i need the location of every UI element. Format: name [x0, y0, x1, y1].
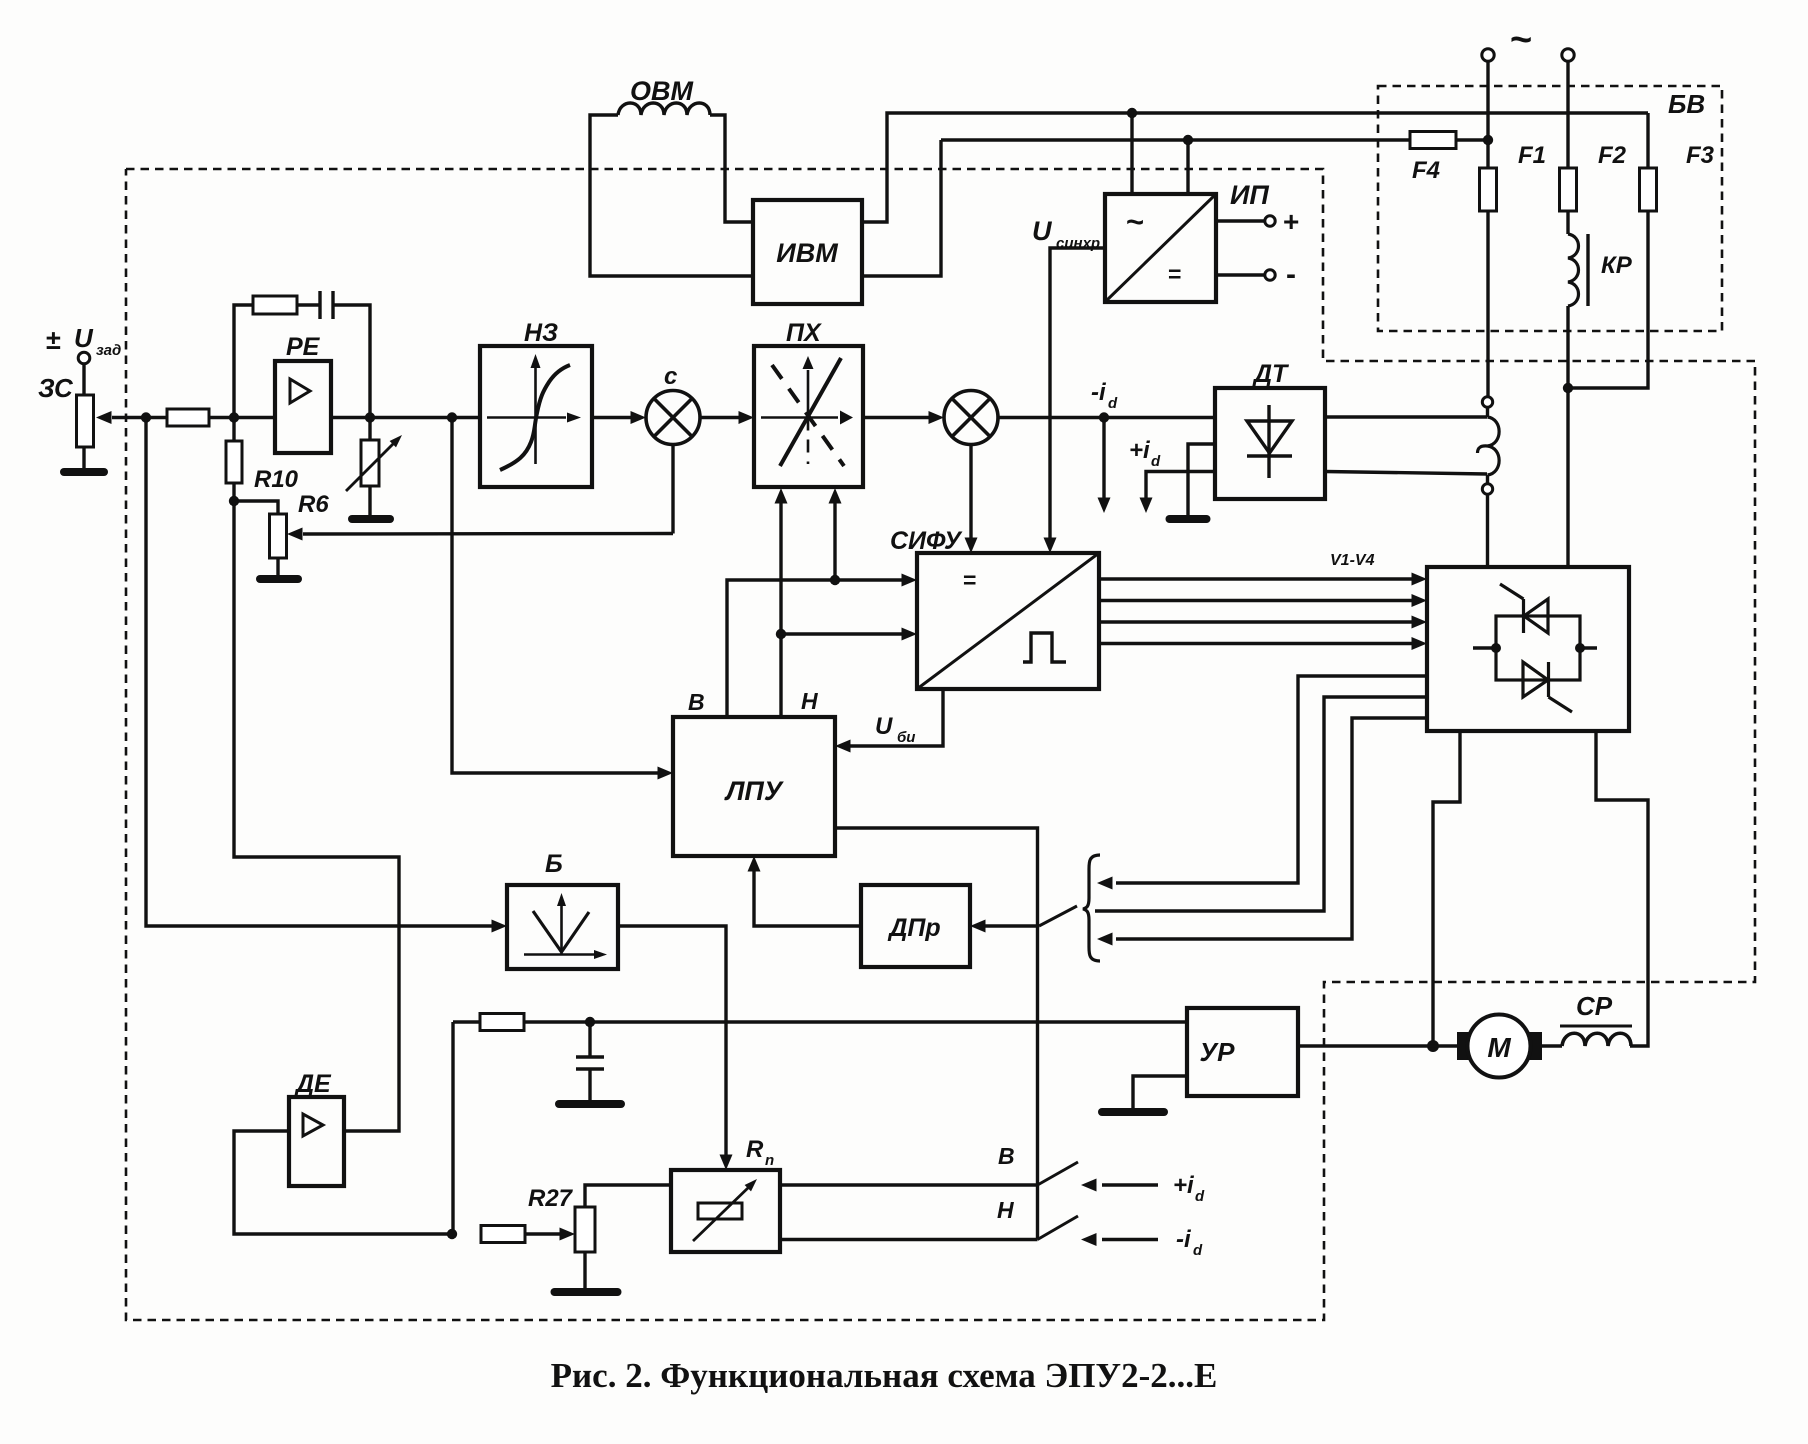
ground under ZS [64, 447, 104, 472]
label NZ [524, 319, 558, 347]
dashed box BV (input unit) [1378, 86, 1722, 331]
wire DT ground lead [1188, 444, 1215, 516]
svg-text:±: ± [46, 325, 61, 355]
wire SIFU output 3 [1099, 620, 1413, 623]
svg-text:~: ~ [1510, 19, 1532, 61]
wire PE output down to R6 [368, 418, 371, 441]
label IP [1230, 180, 1269, 210]
svg-text:ИП: ИП [1230, 180, 1269, 210]
wire U sinhr from IP to SIFU [1050, 248, 1105, 540]
triangle inside PE [290, 379, 310, 403]
wire node to trim potentiometer [234, 501, 278, 514]
wire Rn output H [780, 1238, 1038, 1241]
svg-text:би: би [897, 729, 915, 746]
wire +id into switch B [1102, 1183, 1158, 1186]
svg-text:ДТ: ДТ [1252, 360, 1290, 388]
label PX [786, 319, 822, 347]
svg-text:В: В [998, 1143, 1015, 1169]
svg-text:=: = [1168, 261, 1181, 287]
wire IP input 1 [1130, 113, 1133, 194]
junction main line / speed feedback [141, 412, 151, 422]
block Rn (adaptive resistor) [671, 1170, 780, 1252]
label U bi [875, 713, 915, 746]
arrow into thyristor block 2 [1412, 594, 1428, 607]
trim potentiometer under R10 [270, 514, 287, 558]
wire multiplier 2 to DT [998, 416, 1215, 419]
wire NZ to multiplier C [592, 416, 632, 419]
svg-text:В: В [688, 689, 705, 715]
block UR (reversing control) [1187, 1008, 1298, 1096]
svg-text:-i: -i [1176, 1226, 1192, 1253]
svg-text:Рис. 2. Функциональная схема Э: Рис. 2. Функциональная схема ЭПУ2-2...Е [551, 1356, 1218, 1395]
ground of UR [1102, 1108, 1164, 1116]
PX solid diagonal [780, 358, 841, 466]
label B above LPU [688, 689, 705, 715]
arrow into thyristor block 4 [1412, 637, 1428, 650]
label + at IP output [1283, 206, 1299, 237]
X cross in multiplier 2 [952, 399, 990, 437]
PX horizontal axis [761, 411, 853, 425]
label B at switch [998, 1143, 1015, 1169]
wire R10 to lower node [232, 483, 235, 501]
label DE [294, 1070, 332, 1098]
label - at IP output [1286, 258, 1296, 291]
arrow +id into switch B [1081, 1179, 1097, 1192]
svg-text:d: d [1108, 395, 1118, 412]
svg-text:U: U [875, 713, 893, 740]
wire PE output [331, 416, 480, 419]
svg-text:R: R [746, 1136, 764, 1163]
label F2 [1598, 142, 1627, 169]
arrow into B block [492, 920, 508, 933]
arrow into thyristor block 3 [1412, 616, 1428, 629]
wire F1 into converter [1486, 565, 1489, 568]
junction phase line 2 / IP [1183, 135, 1193, 145]
svg-text:U: U [1032, 216, 1053, 246]
inductor OVM [618, 103, 710, 115]
label +id [1129, 437, 1161, 470]
B V-curve [533, 911, 589, 952]
wire multiplier C to PX [700, 416, 740, 419]
svg-text:c: c [664, 363, 677, 390]
junction PE output / R6 [365, 412, 375, 422]
arrow through Rn (variable) [693, 1179, 757, 1241]
label SIFU [890, 527, 963, 555]
label UR [1200, 1037, 1236, 1067]
svg-text:R6: R6 [298, 491, 329, 518]
wire SIFU input B [727, 580, 903, 717]
label IVM [776, 238, 838, 268]
stub and junction right of loop [1575, 643, 1597, 653]
wire +id lead [1146, 472, 1215, 499]
arrow U sinhr into SIFU [1044, 538, 1057, 554]
feedback resistor of PE [253, 296, 297, 314]
svg-text:~: ~ [1126, 204, 1144, 239]
arrow into thyristor block 1 [1412, 573, 1428, 586]
block DPr (conduction sensor) [861, 885, 970, 967]
wire synchronization line to F4 [941, 138, 1410, 141]
arrow multiplier 2 into SIFU [965, 538, 978, 554]
label U sinhr [1032, 216, 1100, 252]
svg-text:ЗС: ЗС [38, 373, 74, 403]
wire F1 line to thyristor block [1486, 494, 1489, 567]
wire UR to motor [1298, 1044, 1459, 1047]
label M [1487, 1032, 1511, 1063]
block LPU (logic switching unit) [673, 717, 835, 856]
svg-text:ЛПУ: ЛПУ [724, 776, 784, 806]
variable resistor R6 [361, 440, 379, 486]
fuse F4 [1410, 132, 1456, 149]
AC supply terminal 1 [1482, 49, 1494, 61]
wire IVM to phase line 1 [862, 113, 1648, 222]
smoothing reactor SR [1562, 1033, 1631, 1046]
label DPr [887, 914, 940, 942]
wire IP plus output [1216, 219, 1264, 222]
label plus-minus U zad [46, 323, 121, 359]
arrow Ubi into LPU [835, 740, 851, 753]
arrow into PX [739, 411, 755, 424]
svg-text:Н: Н [997, 1197, 1014, 1223]
arrow into multiplier C [631, 411, 647, 424]
wire DT to transformer top [1325, 415, 1487, 418]
label LPU [724, 776, 784, 806]
block IP (power supply) [1105, 194, 1216, 302]
junction capacitor node [585, 1017, 595, 1027]
X cross in multiplier C [654, 399, 692, 437]
label F3 [1686, 142, 1715, 169]
wire -id into switch H [1102, 1238, 1158, 1241]
wire KR down to junction [1566, 306, 1569, 567]
resistor on R27 line [481, 1226, 525, 1243]
svg-text:+i: +i [1129, 437, 1151, 464]
wire resistor to PE [209, 416, 275, 419]
PX vertical axis [803, 356, 814, 464]
svg-text:зад: зад [96, 342, 121, 359]
wire SIFU Ubi output [849, 689, 943, 746]
wire main line from ZS wiper [112, 416, 167, 419]
wire winding to bottom tap [1486, 475, 1489, 484]
wire motor to smoothing reactor [1542, 1044, 1562, 1047]
wire current feedback to trim pot [303, 532, 673, 536]
block NZ (nonlinear element) [480, 346, 592, 487]
junction B line to PX [830, 575, 840, 585]
arrow +id direction [1140, 498, 1153, 514]
label PE [286, 333, 321, 361]
wire feedback up from PE input [234, 305, 253, 418]
block DT (current sensor) [1215, 388, 1325, 499]
wire F3 down [1568, 211, 1648, 388]
label KR [1601, 252, 1633, 279]
wire resistor to R27 [525, 1232, 561, 1235]
arrow -id into switch H [1081, 1233, 1097, 1246]
wire multiplier 2 down to SIFU [969, 445, 972, 541]
label -id at switch [1176, 1226, 1203, 1259]
svg-text:СИФУ: СИФУ [890, 527, 963, 555]
svg-text:+i: +i [1173, 1172, 1195, 1199]
wire SIFU input H / PX left [779, 502, 782, 717]
label R10 [254, 466, 299, 493]
current transformer top tap [1482, 397, 1492, 407]
svg-text:СР: СР [1576, 991, 1613, 1021]
arrow through R6 (variable) [346, 435, 402, 491]
terminal IP plus [1265, 216, 1275, 226]
svg-text:F2: F2 [1598, 142, 1627, 169]
junction motor armature node [1427, 1040, 1439, 1052]
inner loop of antiparallel thyristors [1496, 616, 1580, 680]
resistor on tacho line [480, 1014, 524, 1031]
figure caption [551, 1356, 1218, 1395]
arrow into LPU left [658, 767, 674, 780]
arrow into DPr [970, 920, 986, 933]
svg-text:РЕ: РЕ [286, 333, 321, 361]
wire thyristor feedback 2 [1095, 697, 1427, 911]
wire tap to winding [1486, 407, 1489, 417]
stub and junction left of loop [1473, 643, 1501, 653]
label H above LPU [801, 688, 818, 714]
feedback capacitor of PE [320, 291, 333, 319]
wire terminal to potentiometer ZS [82, 364, 85, 395]
svg-text:М: М [1487, 1032, 1511, 1063]
svg-text:F4: F4 [1412, 157, 1440, 184]
arrow into LPU bottom [748, 856, 761, 872]
wire IP minus output [1216, 273, 1264, 276]
fuse F1 [1480, 168, 1497, 211]
label ~ (AC) between terminals [1510, 19, 1532, 61]
multiplier C circle [646, 391, 700, 445]
junction main line to NZ / LPU branch [447, 412, 457, 422]
wire DPr output to LPU bottom [754, 870, 861, 926]
svg-text:ПХ: ПХ [786, 319, 822, 347]
wire F1 branch upper [1486, 61, 1489, 168]
wire SIFU output 4 [1099, 642, 1413, 645]
svg-text:=: = [963, 567, 976, 593]
label SR [1560, 991, 1632, 1026]
svg-text:БВ: БВ [1668, 89, 1705, 119]
arrow into PX bottom left [775, 488, 788, 504]
svg-text:-i: -i [1091, 379, 1107, 406]
label R27 [528, 1185, 574, 1212]
wire R10 node down and over to DE output side [234, 501, 399, 1131]
potentiometer R27 [575, 1207, 595, 1252]
junction F4-F1 [1483, 135, 1493, 145]
wire under multiplier C (current feedback) [671, 445, 674, 534]
block thyristor converter V1-V4 [1427, 567, 1629, 731]
wire IVM to phase line 2 [862, 140, 941, 276]
svg-text:КР: КР [1601, 252, 1633, 279]
B horizontal axis [524, 950, 607, 959]
ground under trim pot [260, 558, 298, 579]
wire F3 branch [1646, 113, 1649, 168]
wire thyristor feedback 3 [1116, 718, 1427, 939]
wire DE left lead [234, 1131, 452, 1234]
thyristor V top (points left) [1500, 584, 1548, 633]
wire PE input down to R10 [232, 418, 235, 445]
resistor R10 [226, 441, 242, 483]
AC supply terminal 2 [1562, 49, 1574, 61]
wire speed feedback from main junction to B [146, 418, 493, 927]
svg-text:F3: F3 [1686, 142, 1715, 169]
label +id at switch [1173, 1172, 1205, 1205]
junction PE input node [229, 412, 239, 422]
svg-text:+: + [1283, 206, 1299, 237]
svg-text:ОВМ: ОВМ [630, 76, 694, 106]
wire capacitor to PE output [334, 305, 370, 418]
wire F1 to current transformer [1486, 211, 1489, 396]
motor M [1468, 1015, 1531, 1078]
wire resistor to capacitor [297, 303, 319, 306]
current transformer bottom tap [1482, 484, 1492, 494]
potentiometer ZS [77, 395, 94, 447]
wire converter output right [1596, 731, 1648, 1046]
wire OVM left leg [590, 115, 753, 276]
wire F2 to reactor KR [1566, 211, 1569, 234]
label ZS (set-point unit) [38, 373, 74, 403]
arrow -id direction [1098, 418, 1111, 514]
label OVM (motor field winding) [630, 76, 694, 106]
wire thyristor feedback 1 [1116, 676, 1427, 883]
block PE (speed regulator op-amp) [275, 361, 331, 453]
svg-text:R27: R27 [528, 1185, 574, 1212]
wire LPU output right [835, 828, 1038, 1240]
junction R27 line [447, 1229, 457, 1239]
junction under R10 [229, 496, 239, 506]
wire PX to multiplier 2 [863, 416, 930, 419]
label F1 [1518, 142, 1546, 169]
arrow into R27 wiper [560, 1228, 576, 1241]
wire R27 top to Rn [585, 1185, 671, 1207]
svg-text:-: - [1286, 258, 1296, 291]
svg-text:Н: Н [801, 688, 818, 714]
terminal U zad input [78, 352, 90, 364]
svg-text:ИВМ: ИВМ [776, 238, 838, 268]
junction -id node [1099, 412, 1109, 422]
wire junction up to PX right arrow [833, 502, 836, 580]
label DT [1252, 360, 1290, 388]
label -id [1091, 379, 1118, 412]
wire UR ground lead [1133, 1076, 1187, 1108]
wire into DPr from switch [984, 924, 1039, 927]
wire SIFU output 1 [1099, 577, 1413, 580]
block PX (characteristic converter) [754, 346, 863, 487]
svg-text:R10: R10 [254, 466, 299, 493]
block B (module unit) [507, 885, 618, 969]
motor brushes [1457, 1032, 1542, 1060]
svg-text:d: d [1193, 1242, 1203, 1259]
junction phase line 1 / IP [1127, 108, 1137, 118]
terminal IP minus [1265, 270, 1275, 280]
wire B output to Rn [618, 926, 726, 1156]
label H at switch [997, 1197, 1014, 1223]
diagonal inside SIFU [917, 553, 1099, 689]
arrow into PX bottom right [829, 488, 842, 504]
wire Rn output B [780, 1183, 1038, 1186]
svg-text:d: d [1151, 453, 1161, 470]
block SIFU (pulse-phase control) [917, 553, 1099, 689]
fuse F3 [1640, 168, 1657, 211]
arrow into trim pot wiper [287, 528, 303, 541]
wire tacho line to UR [524, 1020, 1187, 1023]
thyristor V bottom (points right) [1523, 662, 1572, 712]
ground under capacitor [559, 1100, 621, 1108]
NZ S-curve [500, 365, 570, 470]
arrow SIFU input B [902, 574, 918, 587]
wire F4 to F1 line [1456, 138, 1488, 141]
wire OVM right leg to IVM [710, 115, 753, 222]
arrow into ZS wiper [96, 411, 112, 424]
label = in IP [1168, 261, 1181, 287]
wire main branch to LPU input [452, 418, 659, 774]
wire tacho line start [453, 1020, 480, 1023]
svg-text:d: d [1195, 1188, 1205, 1205]
reactor KR core bar [1586, 234, 1589, 306]
wire tacho line corner [451, 1022, 454, 1234]
input resistor on main line [167, 409, 209, 426]
thyristor symbol in DT [1247, 405, 1292, 478]
pulse symbol in SIFU [1023, 633, 1066, 662]
label R6 [298, 491, 329, 518]
junction H line [776, 629, 786, 639]
wire F2 branch upper [1566, 61, 1569, 168]
wire SIFU output 2 [1099, 599, 1413, 602]
arrow into Rn top [720, 1155, 733, 1171]
svg-text:ДЕ: ДЕ [294, 1070, 332, 1098]
NZ vertical axis [531, 354, 541, 464]
svg-text:n: n [765, 1152, 774, 1169]
svg-text:ДПр: ДПр [887, 914, 940, 942]
label B [545, 850, 563, 878]
wire H branch to SIFU [781, 632, 903, 635]
switch arm H [1038, 1216, 1079, 1240]
arrow SIFU input H [902, 628, 918, 641]
label ~ in IP [1126, 204, 1144, 239]
filter capacitor [576, 1022, 604, 1100]
svg-text:УР: УР [1200, 1037, 1236, 1067]
wire DT to transformer bottom [1325, 472, 1487, 475]
B vertical axis [557, 893, 566, 954]
svg-text:F1: F1 [1518, 142, 1546, 169]
arrow feedback 3 into brace [1097, 933, 1113, 946]
svg-text:V1-V4: V1-V4 [1330, 552, 1375, 569]
current transformer winding (primary humps) [1478, 417, 1500, 475]
junction F2/F3 lines [1563, 383, 1573, 393]
ground under R27 [555, 1252, 618, 1292]
label F4 [1412, 157, 1440, 184]
label BV [1668, 89, 1705, 119]
svg-text:U: U [74, 323, 94, 353]
ground under R6 [352, 486, 390, 519]
svg-text:НЗ: НЗ [524, 319, 558, 347]
arrow feedback 1 into brace [1097, 877, 1113, 890]
ground of DT [1170, 515, 1207, 523]
curly brace collecting feedback [1083, 855, 1100, 961]
block DE (EMF sensor) [289, 1097, 344, 1186]
multiplier 2 circle [944, 391, 998, 445]
fuse F2 [1560, 168, 1577, 211]
PX dashed diagonal [772, 365, 844, 466]
dashed border of control unit (drive cabinet) [126, 169, 1755, 1320]
label V1-V4 [1330, 552, 1375, 569]
switch arm at DPr [1039, 906, 1077, 926]
wire converter output left [1433, 731, 1460, 1046]
triangle inside DE [303, 1114, 323, 1136]
svg-text:Б: Б [545, 850, 563, 878]
reactor KR winding [1568, 234, 1579, 306]
label = in SIFU [963, 567, 976, 593]
label c of multiplier [664, 363, 677, 390]
arrow into multiplier 2 [929, 411, 945, 424]
diagonal inside IP [1105, 194, 1216, 302]
inner resistor of Rn [698, 1203, 742, 1219]
